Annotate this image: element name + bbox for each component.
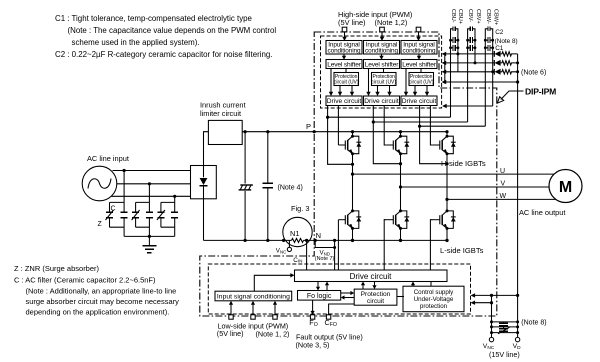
- svg-text:DIP-IPM: DIP-IPM: [525, 87, 556, 97]
- arrows prot->drive W: [413, 86, 429, 97]
- svg-text:C2 : 0.22~2µF R-category ceram: C2 : 0.22~2µF R-category ceramic capacit…: [55, 50, 272, 59]
- svg-text:Drive circuit: Drive circuit: [364, 98, 399, 105]
- wire VS drop V: [373, 106, 402, 166]
- svg-text:CBW-: CBW-: [485, 9, 491, 24]
- terminal VNC bottom: [483, 337, 495, 350]
- arrow protection-UVP link: [397, 296, 404, 298]
- wire gate drop U (high): [337, 106, 339, 146]
- label VND (Note 7): [315, 250, 335, 262]
- arrow protection->drive: [361, 282, 365, 290]
- terminal VNC (Fig.3): [276, 240, 292, 254]
- svg-text:circuit: circuit: [367, 298, 384, 305]
- svg-text:(Note 4): (Note 4): [278, 184, 303, 191]
- wire P to collector V: [399, 130, 402, 136]
- wire V to low collector: [400, 187, 402, 211]
- wire VND link: [315, 240, 336, 270]
- svg-text:(Note 1, 2): (Note 1, 2): [256, 329, 290, 338]
- wire UVP to VD rail with arrow: [471, 293, 520, 297]
- wire+arrow into ISC V: [380, 32, 384, 41]
- input signal conditioning box (low): [215, 291, 292, 301]
- wire VNC rail vertical: [491, 295, 493, 337]
- svg-text:N1: N1: [290, 229, 299, 238]
- wire UVP to VNC rail with arrow: [471, 301, 494, 305]
- arrow ISC->LS V: [379, 54, 383, 60]
- svg-text:C: C: [111, 206, 116, 213]
- level shifter box U: [326, 60, 362, 69]
- svg-text:CBV+: CBV+: [475, 9, 481, 24]
- terminal pin low-in 1: [229, 315, 233, 319]
- svg-text:(Note 3, 5): (Note 3, 5): [296, 341, 330, 350]
- svg-text:circuit (UV): circuit (UV): [371, 80, 396, 86]
- wire VS drop W: [420, 106, 449, 166]
- wire W low gate drop: [430, 220, 433, 270]
- DIP-IPM dash-dot boundary: [200, 32, 497, 316]
- svg-text:Drive circuit: Drive circuit: [350, 272, 393, 281]
- wire gate drop V (high): [384, 106, 386, 146]
- wire N rail: [204, 238, 448, 242]
- svg-text:(Note 8): (Note 8): [495, 38, 518, 45]
- svg-text:conditioning: conditioning: [328, 48, 361, 55]
- arrow Fo logic->drive: [325, 282, 329, 291]
- terminal pin low-in 2: [251, 315, 255, 319]
- wire CIN sense: [306, 240, 308, 270]
- drive circuit box V (high side): [364, 96, 400, 106]
- svg-text:P: P: [306, 122, 311, 131]
- wire gate drop W (high): [430, 106, 433, 146]
- wire U to low collector: [352, 174, 354, 211]
- svg-text:(Note : Additionally, an appro: (Note : Additionally, an appropriate lin…: [26, 287, 177, 296]
- svg-text:CBU-: CBU-: [450, 9, 456, 23]
- wire P to collector U: [351, 130, 354, 136]
- wire VB row 3 with arrow: [442, 70, 495, 74]
- level shifter box V: [364, 60, 400, 69]
- wire CBW- vertical: [484, 33, 486, 126]
- svg-text:(15V line): (15V line): [489, 350, 520, 359]
- bootstrap cap pair U (cap + C2/C1 rows): [449, 26, 459, 50]
- drive circuit box W (high side): [401, 96, 437, 106]
- ZNR+cap filter cell 2 (Z2/C2f): [132, 202, 153, 236]
- svg-text:conditioning: conditioning: [403, 48, 436, 55]
- svg-text:Z : ZNR (Surge absorber): Z : ZNR (Surge absorber): [14, 264, 100, 273]
- wire filter riser 1: [123, 171, 125, 203]
- svg-text:Level shifter: Level shifter: [327, 61, 362, 68]
- filter cap rails (Note 8): [490, 320, 519, 334]
- wire CBW+ vertical: [492, 33, 494, 106]
- arrow LS->drive U: [329, 69, 333, 97]
- svg-text:protection: protection: [420, 303, 448, 310]
- svg-text:limiter circuit: limiter circuit: [200, 109, 241, 118]
- wire+arrow low-in 1: [229, 301, 233, 315]
- wire rectifier top to inrush box: [204, 132, 209, 166]
- svg-text:AC line input: AC line input: [87, 154, 129, 163]
- wire V low emitter to N: [399, 228, 402, 242]
- wire W low emitter to N: [445, 228, 448, 242]
- bootstrap diode+res D3/R3: [494, 69, 517, 75]
- arrows prot->drive U: [338, 86, 354, 97]
- wire U low emitter to N: [351, 228, 354, 242]
- wire CBV+ vertical: [474, 33, 476, 63]
- wire V low gate drop: [384, 220, 386, 270]
- wire CFO: [329, 304, 355, 315]
- wire rectifier bottom to N rail: [203, 199, 205, 241]
- svg-text:(5V line): (5V line): [217, 329, 244, 338]
- arrow Fo logic->protection: [341, 291, 355, 295]
- wire VS branch W to CBW-: [418, 125, 485, 128]
- arrow protection->Fo logic: [341, 295, 355, 299]
- svg-text:(Note 7): (Note 7): [315, 256, 335, 262]
- svg-text:V: V: [501, 181, 506, 188]
- svg-text:Control supply: Control supply: [414, 289, 454, 296]
- arrows prot->drive V: [375, 86, 391, 97]
- ZNR+cap filter cell 1 (Z1/C1f): [106, 202, 128, 236]
- svg-text:U: U: [500, 168, 505, 175]
- wire P rail: [242, 130, 447, 133]
- svg-text:Drive circuit: Drive circuit: [402, 98, 437, 105]
- svg-text:CBV-: CBV-: [467, 9, 473, 22]
- svg-text:M: M: [559, 179, 572, 196]
- protection circuit box W: [409, 69, 434, 86]
- arrow LS->drive W: [404, 69, 408, 97]
- capacitor C-VD1: [499, 322, 508, 327]
- transistor Q2 (V-phase high-side IGBT + diode): [386, 135, 409, 156]
- terminal pin W-input: [416, 27, 421, 32]
- svg-text:H-side IGBTs: H-side IGBTs: [441, 159, 486, 168]
- wire filter riser 2: [148, 184, 150, 203]
- rectifier REC1: [191, 166, 217, 199]
- inrush current limiter box: [208, 120, 242, 144]
- wire W emitter down: [446, 154, 448, 200]
- wire U output line: [351, 173, 565, 176]
- svg-text:W: W: [500, 193, 507, 200]
- control supply under-voltage protection box: [403, 286, 464, 312]
- wire VB row 1 with arrow into block: [442, 52, 495, 56]
- svg-text:Z: Z: [98, 221, 103, 228]
- wire AC line 1: [113, 169, 191, 172]
- transistor Q3 (W-phase high-side IGBT + diode): [433, 135, 456, 156]
- svg-text:(Note 1,2): (Note 1,2): [375, 18, 408, 27]
- svg-text:CIN: CIN: [293, 257, 302, 264]
- wire U low gate drop: [337, 220, 339, 270]
- wire U emitter down: [352, 154, 354, 174]
- wire CBU- vertical: [450, 33, 452, 117]
- wire filter riser 3: [174, 196, 176, 202]
- svg-text:Drive circuit: Drive circuit: [327, 98, 362, 105]
- svg-text:circuit (UV): circuit (UV): [334, 80, 359, 86]
- bootstrap diode+res D1/R1: [494, 51, 517, 57]
- svg-text:AC line output: AC line output: [519, 208, 565, 217]
- bootstrap diode+res D2/R2: [494, 60, 517, 66]
- drive circuit box U (high side): [326, 96, 362, 106]
- arrow LS->drive V: [366, 69, 370, 97]
- svg-text:C1 : Tight tolerance, temp-com: C1 : Tight tolerance, temp-compensated e…: [55, 14, 253, 23]
- wire CBU+ vertical: [457, 33, 459, 72]
- capacitor C1 (Note 4): [263, 132, 273, 242]
- wire VS branch U to CBU-: [326, 116, 451, 119]
- svg-text:CBU+: CBU+: [457, 9, 463, 24]
- ground: [142, 236, 156, 252]
- svg-text:C : AC filter (Ceramic capacit: C : AC filter (Ceramic capacitor 2.2~6.5…: [14, 276, 156, 285]
- bootstrap cap pair V: [466, 26, 476, 50]
- wire+arrow low-in 2: [251, 301, 255, 315]
- svg-text:CBW+: CBW+: [493, 9, 499, 25]
- terminal pin U-input: [342, 27, 347, 32]
- wire VS drop U: [328, 106, 355, 166]
- protection circuit box (low): [354, 289, 397, 305]
- wire+arrow into ISC W: [416, 32, 420, 41]
- wire filter common bus: [124, 235, 175, 238]
- low-side drive circuit box: [295, 270, 448, 282]
- input signal conditioning box V: [364, 41, 400, 55]
- level shifter box W: [401, 60, 437, 69]
- transistor Q4 (U-phase low-side IGBT + diode): [338, 209, 361, 230]
- wire+arrow ISC to drive circuit: [254, 273, 294, 291]
- svg-text:Fig. 3: Fig. 3: [291, 204, 309, 213]
- ZNR+cap filter cell 3 (Z3/C3f): [157, 202, 178, 236]
- motor M: [549, 170, 582, 203]
- svg-text:conditioning: conditioning: [365, 48, 398, 55]
- wire+arrow low-in 3: [273, 301, 277, 315]
- terminal VD bottom: [513, 337, 522, 350]
- wire AC line 2: [117, 182, 191, 185]
- svg-text:circuit (UV): circuit (UV): [409, 80, 434, 86]
- input signal conditioning box W: [401, 41, 437, 55]
- terminal pin CFO: [326, 315, 330, 319]
- wire VB entry (drive row): [442, 104, 493, 108]
- svg-text:L-side IGBTs: L-side IGBTs: [440, 246, 484, 255]
- svg-text:(Note 8): (Note 8): [521, 319, 546, 326]
- wire AC line 3: [112, 195, 191, 198]
- arrow UVP->drive: [411, 282, 431, 287]
- wire+arrow Fo out: [311, 300, 315, 315]
- protection circuit box U: [334, 69, 359, 86]
- capacitor C-VD2 (electrolytic): [498, 327, 510, 334]
- input signal conditioning box U: [326, 41, 362, 55]
- svg-text:Under-Voltage: Under-Voltage: [414, 296, 454, 303]
- wire CBV- vertical: [467, 33, 469, 122]
- wire V emitter down: [400, 154, 402, 187]
- svg-text:Level shifter: Level shifter: [402, 61, 437, 68]
- high-side dashed box: [321, 36, 442, 108]
- transistor Q5 (V-phase low-side IGBT + diode): [386, 209, 409, 230]
- arrow ISC->LS W: [417, 54, 421, 60]
- svg-text:C2: C2: [495, 29, 504, 36]
- wire grid left tie: [444, 54, 446, 82]
- wire P to collector W: [445, 130, 448, 136]
- note text bottom-left: [14, 264, 179, 317]
- svg-text:surge absorber circuit may bec: surge absorber circuit may become necess…: [26, 297, 180, 306]
- arrow ISC->LS U: [342, 54, 346, 60]
- svg-text:(Note : The capacitance value: (Note : The capacitance value depends on…: [68, 26, 277, 35]
- bootstrap cap pair W: [484, 26, 494, 50]
- wire VB row 2 with arrow: [442, 61, 495, 65]
- svg-text:VNC: VNC: [276, 248, 286, 255]
- DIP-IPM leader arrow: [497, 91, 523, 103]
- transistor Q6 (W-phase low-side IGBT + diode): [433, 209, 456, 230]
- svg-text:scheme used in the applied sys: scheme used in the applied system).: [72, 38, 200, 47]
- wire VS branch V to CBV-: [372, 120, 468, 123]
- svg-text:(5V line): (5V line): [338, 18, 366, 27]
- arrow drive->Fo logic: [316, 282, 320, 291]
- svg-text:Input signal conditioning: Input signal conditioning: [217, 294, 290, 301]
- wire W output line: [445, 198, 565, 201]
- Fig.3 circle N1: [283, 217, 312, 246]
- terminal pin V-input: [380, 27, 385, 32]
- transistor Q1 (U-phase high-side IGBT + diode): [338, 135, 361, 156]
- low-side dashed box: [208, 264, 470, 314]
- wire W to low collector: [446, 199, 448, 211]
- svg-text:Fo logic: Fo logic: [307, 293, 332, 300]
- fuse/resistor ZZZ branch: [238, 132, 254, 242]
- svg-text:depending on the application e: depending on the application environment…: [26, 308, 170, 317]
- Fo logic box: [298, 291, 341, 301]
- svg-text:Protection: Protection: [361, 291, 391, 298]
- note text C1: [55, 14, 276, 59]
- wire+arrow into ISC U: [342, 32, 346, 41]
- wire V output line: [399, 185, 565, 188]
- svg-text:(Note 6): (Note 6): [521, 70, 546, 77]
- svg-text:Level shifter: Level shifter: [365, 61, 400, 68]
- svg-text:N: N: [316, 231, 321, 240]
- protection circuit box V: [371, 69, 396, 86]
- terminal pin Fo: [310, 315, 314, 319]
- wire VD feed row 4: [442, 80, 520, 84]
- arrow drive->protection: [372, 282, 376, 290]
- terminal pin low-in 3: [273, 315, 277, 319]
- AC source G1: [82, 166, 117, 201]
- wire VD bus vertical: [517, 54, 519, 338]
